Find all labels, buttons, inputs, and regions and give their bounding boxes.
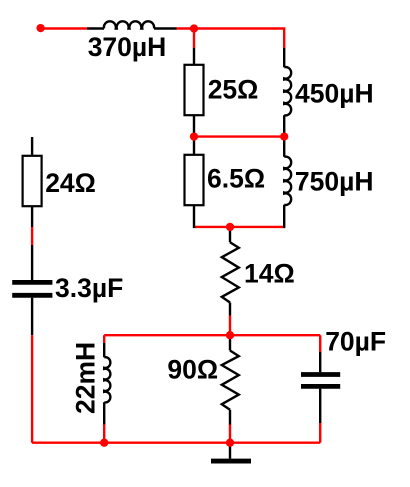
inductor L4 22mH leads: [103, 343, 105, 424]
wire node D horizontal rail: [104, 334, 320, 336]
bottom rail dot left: [100, 439, 108, 447]
resistor R5 24ohm top stub: [31, 137, 33, 155]
svg-text:22mH: 22mH: [71, 342, 101, 414]
inductor L1 370uH coil: [104, 21, 154, 28]
svg-text:24Ω: 24Ω: [45, 168, 96, 198]
wire L1 to node A, corner down to L2: [177, 29, 285, 49]
resistor R1 25ohm body: [185, 65, 204, 115]
resistor R4 90ohm zigzag: [222, 351, 239, 410]
svg-text:14Ω: 14Ω: [244, 258, 295, 288]
resistor R3 14ohm zigzag: [222, 242, 239, 302]
resistor R4 90ohm lead bottom: [229, 410, 231, 425]
resistor R5 24ohm lead bottom: [31, 207, 33, 228]
wire node D down to C2: [319, 335, 321, 352]
node B dot left: [190, 132, 198, 140]
inductor L3 750uH coil: [284, 157, 291, 205]
resistor R3 14ohm lead bottom: [229, 303, 231, 316]
inductor L3 750uH leads: [283, 139, 285, 228]
wire L4 bottom to rail: [103, 424, 105, 443]
svg-text:450µH: 450µH: [295, 79, 374, 109]
svg-text:25Ω: 25Ω: [208, 75, 259, 105]
capacitor C1 3.3uF plates: [12, 282, 52, 295]
inductor L2 450uH leads: [283, 48, 285, 134]
svg-text:750µH: 750µH: [295, 167, 374, 197]
svg-text:6.5Ω: 6.5Ω: [207, 163, 265, 193]
wire terminal to L1: [41, 27, 87, 29]
node B dot right: [280, 132, 288, 140]
wire node C horizontal: [194, 226, 284, 228]
node C dot: [226, 223, 234, 231]
inductor L4 22mH coil: [104, 357, 110, 402]
ground bar: [211, 459, 251, 464]
wire C2 bottom to rail: [319, 423, 321, 443]
resistor R5 24ohm body: [23, 156, 42, 206]
wire node A down to R1: [193, 29, 195, 49]
resistor R3 14ohm lead top: [229, 229, 231, 242]
wire left branch lower segment: [31, 335, 33, 443]
node A dot: [190, 24, 198, 32]
capacitor C2 70uF plates: [301, 375, 340, 387]
wire R3 bottom to node D: [229, 316, 231, 336]
svg-text:90Ω: 90Ω: [167, 354, 218, 384]
resistor R2 6.5ohm body: [185, 155, 204, 205]
terminal dot top-left: [36, 24, 44, 32]
capacitor C1 3.3uF lead bottom: [31, 298, 33, 336]
node D dot: [226, 331, 234, 339]
resistor R2 6.5ohm leads: [193, 139, 195, 228]
inductor L1 370uH leads: [87, 27, 177, 29]
capacitor C2 70uF leads: [319, 352, 321, 423]
svg-text:3.3µF: 3.3µF: [55, 273, 123, 303]
wire node D down to L4: [103, 335, 105, 343]
inductor L2 450uH coil: [284, 67, 291, 115]
wire bottom rail: [32, 442, 320, 444]
svg-text:70µF: 70µF: [325, 327, 386, 357]
capacitor C1 3.3uF lead top: [31, 245, 33, 280]
svg-text:370µH: 370µH: [88, 32, 167, 62]
ground stub: [229, 443, 231, 459]
resistor R4 90ohm lead top: [229, 337, 231, 351]
bottom rail dot center: [226, 439, 234, 447]
wire left branch segment between R5 and C1: [31, 227, 33, 245]
wire R4 bottom to rail: [229, 424, 231, 443]
wire node B horizontal: [194, 135, 284, 137]
resistor R1 25ohm leads: [193, 48, 195, 134]
